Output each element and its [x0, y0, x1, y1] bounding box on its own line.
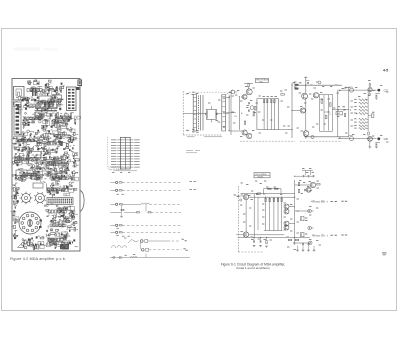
resistor R15: [281, 94, 285, 96]
transistor TR1: [246, 89, 252, 95]
wire left verticals: [337, 90, 339, 137]
svg-text:PHOTOGRAPH: PHOTOGRAPH: [255, 173, 267, 176]
wire top rail bottom amp: [241, 193, 295, 195]
resistor block R80: [301, 217, 305, 221]
svg-text:47k: 47k: [234, 116, 237, 118]
signal rail 4: [111, 211, 122, 213]
potentiometer RV101 large circular: [19, 212, 41, 234]
bottom cluster right: [288, 239, 291, 240]
component designator labels top row: [187, 93, 189, 95]
title box head amplifier: [254, 173, 270, 178]
wire diagonal into relay: [128, 240, 139, 244]
wire bottom rail: [238, 236, 310, 238]
resistor R61: [275, 188, 278, 190]
component designator labels bottom row: [241, 182, 243, 184]
resistor R65: [317, 184, 320, 185]
test point TP3: [369, 93, 371, 95]
connector PL1 top-left: [14, 87, 25, 101]
module M1 box: [206, 109, 216, 119]
resistor R22: [325, 115, 327, 119]
PCB aligned component rows: [16, 89, 67, 242]
potentiometer RV1: [250, 106, 254, 110]
signal rail 3 with filter: [111, 203, 115, 205]
white IC outlines mid-board: [28, 152, 41, 158]
capacitor C35: [304, 189, 306, 191]
wire between TR20 TR21: [245, 200, 247, 232]
IC U103 outline: [52, 95, 62, 102]
transistor TR23: [284, 209, 289, 214]
capacitor C33: [253, 240, 255, 242]
resistor R16: [295, 84, 298, 86]
transistor TR25: [284, 225, 289, 230]
capacitor C32: [312, 175, 314, 177]
wire right vertical: [294, 180, 296, 245]
transistor TR10: [368, 136, 373, 141]
board dashed bottom: [238, 251, 263, 253]
test point small circle: [240, 199, 242, 201]
board dashed boundary bottom-left: [237, 186, 239, 252]
input filter cluster: [232, 91, 235, 94]
capacitor C30: [302, 175, 304, 177]
transistor TR22: [284, 204, 289, 209]
capacitor C5 input tee: [304, 76, 307, 78]
module corner labels: [216, 120, 218, 122]
connector PL2 strip below: [14, 102, 21, 135]
board dashed bottom right: [240, 140, 295, 142]
transistor TR26: [310, 182, 315, 187]
capacitor C31: [307, 175, 309, 177]
resistor R42 below ladder: [368, 132, 369, 135]
SK1 bottom pin cluster: [192, 128, 194, 130]
board boundary dashed top: [189, 91, 227, 93]
amp cluster labels: [250, 100, 252, 102]
svg-text:Figure 4.2 MDA amplifier p.c.: Figure 4.2 MDA amplifier p.c.b.: [10, 257, 66, 261]
output terminal PL4: [377, 137, 380, 140]
hatched cable strip: [197, 96, 199, 131]
wire H link: [183, 113, 206, 115]
resistor R72: [298, 189, 299, 192]
svg-text:C28: C28: [384, 139, 389, 141]
resistor R50: [121, 209, 124, 210]
preset RV2: [350, 88, 354, 92]
wire main vertical: [238, 97, 240, 130]
resistor R60: [268, 188, 271, 190]
cable loop at right edge: [80, 191, 84, 212]
transistor TR4: [247, 133, 252, 138]
capacitor C34: [259, 240, 261, 242]
inductor L2: [113, 256, 115, 258]
output terminal PL3: [377, 89, 380, 92]
resistor R43: [344, 113, 345, 116]
board boundary dashed bottom: [183, 134, 222, 136]
transistor TR20: [243, 194, 248, 199]
svg-text:(head 1 and 2 amplifiers): (head 1 and 2 amplifiers): [236, 266, 269, 270]
note dashes below connector: [187, 136, 195, 138]
bus traces: [35, 108, 57, 109]
wire long bottom link: [110, 257, 190, 259]
resistor block R81: [301, 233, 305, 237]
wire bus into amplifier: [226, 96, 229, 98]
twisted pair symbol: [112, 246, 116, 248]
transistor TR7: [313, 93, 318, 98]
svg-text:Rh ta.t (Rh - t: Rh ta.t (Rh - t: [312, 200, 328, 204]
resistor R39: [369, 84, 370, 87]
signal rail 7 with relay: [141, 240, 144, 243]
faint bleed-through smudge: [14, 48, 40, 51]
resistor R17: [295, 88, 298, 90]
comb block U104: [43, 102, 46, 107]
svg-text:MODEL: MODEL: [258, 176, 264, 178]
capacitor C1: [248, 102, 250, 104]
junction dots top row: [241, 96, 242, 97]
signal rail 8: [142, 249, 145, 252]
capacitor C2: [247, 110, 249, 112]
connector tab right: [76, 87, 79, 90]
resistor R70: [266, 240, 267, 243]
wire bridge over block: [264, 188, 282, 190]
svg-text:2/: 2/: [186, 94, 188, 96]
svg-text:+2: +2: [329, 114, 331, 116]
wire feedback vertical: [253, 194, 255, 238]
transistor TR24: [284, 221, 289, 226]
wire top bus: [298, 84, 342, 86]
preset RV3: [350, 137, 354, 141]
edge connector SK2 bar: [221, 95, 223, 132]
IC U101 striped block: [31, 89, 34, 96]
signal rail 6: [111, 231, 115, 233]
wire rails entering: [236, 195, 243, 197]
wire vertical to upper bus: [291, 83, 293, 138]
output row 1 annotation: [311, 200, 312, 202]
wire top stub: [305, 171, 307, 176]
bottom edge block: [60, 244, 69, 249]
PCB component cluster texture: [11, 80, 81, 250]
svg-text:MDL: MDL: [260, 81, 264, 83]
wire diagonal to TR2: [226, 90, 233, 95]
wire links bottom centre: [289, 206, 295, 208]
SK1 top pin cluster: [192, 91, 194, 93]
IC table left dashed bracket: [106, 137, 108, 168]
PCB board outline: [12, 79, 80, 252]
bias network columns: [265, 197, 267, 230]
comparator block wires: [319, 94, 321, 131]
signal rail 2: [111, 189, 115, 191]
edge connector SK1 bar: [192, 95, 194, 132]
connector SK4 horizontal strip: [47, 198, 73, 205]
resistor R6: [244, 121, 245, 124]
resistor ladder R30-R38: [359, 99, 367, 101]
transistor TR5: [300, 108, 305, 113]
relay labels: [122, 235, 124, 237]
board boundary dashed line left: [182, 91, 184, 135]
wire lower rail: [304, 136, 348, 138]
svg-text:Rh ta.t (Th - t: Rh ta.t (Th - t: [312, 233, 328, 237]
label +24V box: [336, 112, 343, 115]
resistor R5: [254, 106, 256, 110]
signal rail 5: [111, 224, 115, 226]
PCB top-right label block MDA: [78, 80, 83, 87]
transistor TR6: [302, 93, 308, 99]
wire inner verticals: [200, 95, 202, 131]
comb block U105: [38, 113, 41, 117]
edge connector SK3 right column: [67, 87, 77, 111]
junction dots bottom row: [246, 197, 247, 198]
capacitor C11: [375, 143, 377, 145]
transistor Q101 can: [22, 194, 31, 203]
transistor TR21: [243, 232, 248, 237]
ground stub TR10: [369, 141, 371, 146]
page number bottom: [382, 252, 387, 253]
test points box: [255, 79, 268, 83]
resistor R20: [321, 100, 323, 104]
wire out of comparator: [333, 109, 349, 111]
ladder mid tap: [368, 115, 371, 117]
IC block PL5 pin table: [120, 137, 130, 169]
capacitor C20: [121, 205, 123, 215]
rail end labels: [190, 181, 192, 183]
transistor TR8: [303, 131, 309, 137]
output terminal B: [308, 226, 312, 230]
capacitor C10: [375, 95, 377, 97]
wire relay link vertical: [139, 242, 141, 249]
transistor TR26b: [306, 187, 311, 192]
svg-text:4-5: 4-5: [383, 68, 388, 72]
transistor TR2: [242, 94, 247, 99]
resistor R71: [298, 182, 299, 185]
wire bottom rail: [257, 129, 292, 131]
transistor TR3: [242, 130, 247, 135]
wire bottom output rail: [338, 138, 377, 140]
signal rail 1: [111, 181, 115, 183]
transistor Q102 can: [36, 194, 45, 203]
resistor R5b: [253, 112, 254, 115]
transistor TR9: [368, 88, 372, 92]
output terminal C: [309, 241, 313, 245]
wire right box edge: [278, 99, 280, 130]
resistor R62 on rail: [257, 193, 260, 194]
resistor R1 above TR1: [248, 84, 249, 87]
wire left box edge: [256, 99, 258, 130]
resistor network R10-R13 column tops: [263, 99, 265, 130]
IC U102 outline: [39, 96, 51, 104]
wire TR20 to network: [249, 196, 266, 198]
wire right of SK2: [228, 95, 230, 131]
test point TP2: [318, 81, 321, 84]
resistor R21: [330, 103, 332, 107]
wire top output rail: [338, 89, 377, 91]
output terminal A: [308, 209, 312, 213]
svg-text:Cwn JC,JDB RJ: Cwn JC,JDB RJ: [108, 169, 122, 171]
